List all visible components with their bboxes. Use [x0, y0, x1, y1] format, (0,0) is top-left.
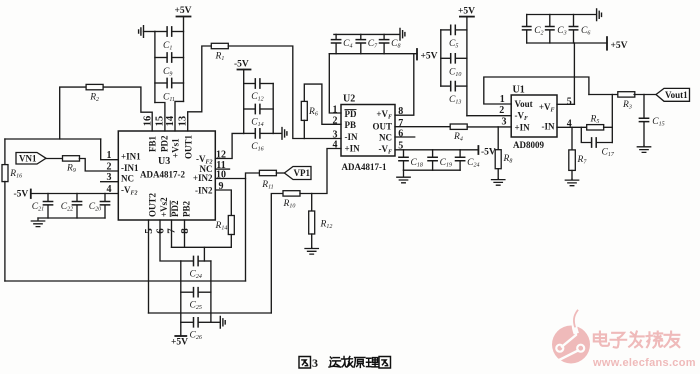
svg-text:-IN2: -IN2 — [195, 185, 213, 195]
wire C11 wire — [155, 82, 167, 84]
resistor R14 — [228, 216, 234, 235]
wire C8 bottom lead — [383, 44, 385, 54]
svg-text:R9: R9 — [66, 164, 76, 175]
power +5V C4 row — [416, 49, 418, 60]
wire C13 wire left — [441, 85, 451, 87]
svg-text:Vout: Vout — [515, 99, 533, 109]
wire C12 stack left bus — [243, 70, 245, 134]
resistor R7 — [569, 150, 576, 171]
svg-text:C6: C6 — [581, 26, 590, 37]
svg-text:VP1: VP1 — [294, 168, 311, 178]
wire C5 wire left — [441, 29, 451, 31]
wire C21 bottom lead — [47, 205, 49, 218]
svg-text:C22: C22 — [61, 202, 73, 213]
svg-text:C11: C11 — [163, 93, 175, 104]
wire C16 wire right — [261, 132, 274, 134]
wire C19 bottom lead — [432, 161, 434, 170]
wire C26 wire left — [181, 321, 194, 323]
svg-text:2: 2 — [499, 105, 504, 116]
capacitor C2 — [523, 27, 531, 30]
svg-text:C15: C15 — [652, 117, 664, 128]
wire bottom loop horizontal — [5, 280, 246, 282]
wire bus elbow to U3 pin15 — [155, 103, 165, 132]
svg-text:Vout1: Vout1 — [665, 90, 688, 100]
capacitor C24 — [456, 157, 465, 160]
capacitor C24 — [194, 256, 199, 265]
svg-text:C9: C9 — [163, 67, 172, 78]
watermark logo — [552, 326, 590, 364]
capacitor C1 — [167, 27, 172, 36]
capacitor C21 — [43, 202, 52, 205]
svg-text:C18: C18 — [411, 158, 423, 169]
svg-text:C16: C16 — [251, 142, 263, 153]
svg-text:-5V: -5V — [481, 147, 496, 157]
power +5V C2 row — [606, 37, 608, 50]
wire C9 wire right — [172, 57, 183, 59]
svg-text:+5V: +5V — [175, 6, 192, 16]
wire C16 wire to ground — [273, 132, 282, 134]
wire C24 stack right rail — [210, 261, 212, 322]
wire C7 bottom lead — [360, 44, 362, 54]
wire R12 top lead — [311, 194, 313, 212]
svg-text:5: 5 — [567, 96, 572, 107]
wire C21 top lead — [47, 194, 49, 202]
wire R2 left leg — [60, 87, 86, 139]
ground C26 ground — [220, 317, 225, 329]
wire left loop vertical upper — [4, 139, 6, 165]
wire U3 pin9 to R14 — [215, 190, 231, 216]
node Vout1 output tag — [656, 88, 690, 101]
op-amp U2 ADA4817-1 — [341, 105, 395, 157]
capacitor C13 — [451, 82, 456, 91]
svg-text:www.elecfans.com: www.elecfans.com — [592, 357, 696, 369]
svg-text:ADA4817-2: ADA4817-2 — [140, 170, 185, 180]
wire C6 line down to U1 pin5 — [573, 43, 575, 104]
capacitor C26 — [194, 318, 199, 327]
wire U3 pin1 +IN1 to feedback node — [101, 139, 119, 160]
svg-text:C26: C26 — [190, 331, 202, 342]
wire C24 bottom lead — [459, 161, 461, 170]
svg-text:+5V: +5V — [458, 6, 475, 16]
svg-text:OUT: OUT — [372, 122, 392, 132]
svg-text:PD: PD — [345, 109, 357, 119]
svg-text:R8: R8 — [503, 154, 513, 165]
wire C4 bottom lead — [335, 44, 337, 54]
svg-text:3: 3 — [502, 116, 507, 127]
wire C14 wire right — [261, 108, 274, 110]
wire U3 pin7 PD2 stub — [171, 220, 173, 247]
power +5V C5 stack — [460, 16, 474, 18]
svg-text:PD2: PD2 — [170, 200, 180, 217]
svg-text:U1: U1 — [513, 85, 525, 96]
wire R3 to Vout1 — [634, 94, 656, 96]
wire U3 pin8 PB2 stub — [184, 220, 186, 247]
wire VN1 to R9 — [46, 158, 63, 160]
svg-text:R3: R3 — [622, 100, 632, 111]
svg-text:+VF: +VF — [376, 109, 392, 121]
resistor R3 — [618, 92, 635, 97]
svg-text:4: 4 — [333, 140, 338, 151]
wire C4 row bottom rail — [329, 53, 417, 55]
capacitor C22 — [72, 202, 81, 205]
svg-text:R5: R5 — [590, 114, 600, 125]
svg-text:R2: R2 — [89, 93, 99, 104]
wire C4 row top rail — [334, 33, 400, 35]
wire R9 to U3 pin2 -IN1 — [79, 159, 118, 172]
svg-text:-VF: -VF — [378, 144, 392, 156]
capacitor C8 — [380, 40, 389, 43]
svg-text:FB1: FB1 — [147, 135, 157, 152]
wire U1 pin4 stub — [557, 126, 587, 128]
svg-text:PB: PB — [345, 120, 357, 130]
ground R8 ground — [492, 179, 505, 185]
resistor R1 — [211, 43, 228, 48]
svg-text:+VF: +VF — [539, 102, 555, 114]
wire R14 bottom to pins 7-8 rail — [172, 235, 232, 248]
wire C12 stack right bus — [272, 84, 274, 134]
ground C15 ground — [637, 146, 650, 152]
wire C1 wire — [155, 31, 167, 33]
capacitor C15 — [639, 118, 648, 121]
ground R12 ground — [305, 248, 318, 255]
node VN1 input tag — [16, 153, 46, 165]
svg-text:15: 15 — [155, 116, 166, 127]
svg-text:AD8009: AD8009 — [513, 140, 544, 150]
svg-text:C21: C21 — [32, 202, 44, 213]
wire C18 row bottom rail — [404, 169, 461, 171]
svg-text:C5: C5 — [449, 39, 458, 50]
capacitor C3 — [546, 27, 554, 30]
wire C26 to ground — [211, 321, 220, 323]
svg-text:U3: U3 — [158, 156, 170, 167]
wire C5 wire right — [456, 29, 467, 31]
watermark text 电子发烧友 — [594, 332, 609, 346]
wire R8 top lead — [497, 127, 499, 150]
wire loop to U3 pin10 +IN2 — [215, 179, 245, 282]
wire C10 wire left — [441, 57, 451, 59]
wire C13 wire right — [456, 85, 467, 87]
svg-text:+5V: +5V — [421, 52, 438, 62]
svg-text:OUT1: OUT1 — [183, 134, 193, 159]
ground C18 row ground — [397, 170, 410, 183]
wire R1 to U2 pin3 — [228, 46, 341, 139]
wire C2 bottom lead — [526, 30, 528, 43]
wire +5V down to U2 pin8 — [395, 54, 414, 115]
wire U3 pin13 OUT1 up — [188, 46, 212, 131]
title caption — [299, 357, 311, 369]
wire C17 right leg — [597, 142, 612, 144]
wire R4 to U1 pin3 — [467, 126, 511, 128]
wire U3 pin6 +Vs2 down — [160, 220, 181, 261]
svg-text:C19: C19 — [440, 158, 452, 169]
wire R7 top lead — [571, 127, 573, 150]
node VP1 input tag — [284, 167, 311, 180]
svg-text:C2: C2 — [534, 26, 543, 37]
svg-text:+IN: +IN — [345, 144, 361, 154]
resistor R10 — [283, 191, 300, 196]
wire C24 top lead — [459, 150, 461, 157]
svg-text:NC: NC — [121, 174, 134, 184]
svg-text:C24: C24 — [190, 269, 202, 280]
wire R6 bottom to -IN line — [303, 120, 305, 138]
wire U3 pin5 OUT2 down — [148, 220, 150, 313]
wire R12 bottom lead — [311, 234, 313, 248]
wire U1 pin1 Vout loop — [484, 77, 589, 104]
ground R7 ground — [565, 179, 578, 185]
capacitor C9 — [167, 53, 172, 62]
svg-text:C13: C13 — [449, 95, 461, 106]
wire U2 pin1 PD up — [329, 54, 341, 113]
wire C5 stack stem — [466, 17, 468, 116]
wire U1 pin5 stub — [557, 103, 574, 105]
wire R3 line — [589, 94, 619, 96]
svg-text:R4: R4 — [453, 132, 463, 143]
svg-text:+5V: +5V — [171, 338, 188, 348]
svg-text:+Vs2: +Vs2 — [159, 197, 169, 217]
wire C7 top lead — [360, 34, 362, 39]
wire C11 wire right — [172, 82, 183, 84]
svg-text:C8: C8 — [391, 39, 400, 50]
wire C2 row bottom rail — [527, 42, 607, 44]
resistor R5 — [587, 125, 604, 130]
op-amp U3 ADA4817-2 — [118, 131, 215, 220]
svg-text:-IN: -IN — [542, 121, 555, 131]
svg-text:-5V: -5V — [234, 60, 249, 70]
power -5V left — [30, 190, 32, 199]
wire OUT2 feedback bottom — [149, 312, 272, 314]
ground C1 wire ground — [139, 26, 144, 38]
wire C3 top lead — [549, 15, 551, 27]
capacitor C7 — [356, 40, 365, 43]
wire C19 top lead — [432, 150, 434, 157]
wire +5V stem — [183, 17, 185, 102]
wire C2 top lead — [526, 15, 528, 27]
svg-text:PD2: PD2 — [159, 135, 169, 152]
wire U2 pin6 NC stub — [395, 136, 415, 138]
svg-text:C25: C25 — [190, 301, 202, 312]
wire U3 pin3 NC stub — [101, 181, 119, 183]
wire R8 bottom lead — [497, 169, 499, 179]
svg-text:PB2: PB2 — [181, 200, 191, 217]
capacitor C5 — [451, 25, 456, 34]
svg-text:R6: R6 — [308, 107, 318, 118]
wire C20 bottom lead — [104, 205, 106, 218]
svg-text:-IN1: -IN1 — [121, 163, 139, 173]
wire U2 pin2 PB to R6 — [304, 84, 341, 124]
wire C22 top lead — [76, 194, 78, 202]
op-amp U1 AD8009 — [511, 95, 557, 137]
power +5V top-left — [177, 16, 191, 18]
power -5V U2 row — [477, 146, 479, 154]
wire C26 wire right — [199, 321, 211, 323]
ground left rail ground — [31, 218, 44, 227]
wire C5 stack left bus — [440, 30, 442, 86]
resistor R4 — [450, 124, 467, 129]
svg-text:C4: C4 — [343, 39, 352, 50]
wire C25 wire left — [181, 291, 194, 293]
resistor R9 — [63, 156, 80, 161]
capacitor C20 — [100, 202, 109, 205]
svg-text:C14: C14 — [251, 118, 263, 129]
wire C4 top lead — [335, 34, 337, 39]
capacitor C4 — [332, 40, 341, 43]
resistor R6 — [301, 101, 307, 120]
wire U3 pin12 to C16 bus — [215, 133, 243, 158]
resistor R12 — [309, 211, 315, 234]
svg-text:R14: R14 — [215, 221, 228, 232]
wire C24 wire right — [199, 260, 211, 262]
wire C16 wire left — [244, 132, 255, 134]
wire +5V elbow to U3 pin14 — [175, 101, 184, 131]
svg-text:-VF2: -VF2 — [121, 185, 138, 197]
capacitor C17 — [592, 138, 597, 147]
wire U2 pin7 OUT to R4 — [395, 126, 450, 128]
wire feedback vertical to R3 line — [611, 95, 613, 143]
wire C15 bottom lead — [643, 122, 645, 146]
wire R7 bottom lead — [571, 171, 573, 180]
svg-text:-IN: -IN — [345, 132, 358, 142]
svg-text:ADA4817-1: ADA4817-1 — [342, 162, 387, 172]
resistor R2 — [86, 84, 103, 89]
svg-text:C3: C3 — [557, 26, 566, 37]
svg-text:C20: C20 — [89, 202, 101, 213]
power +5V bottom — [175, 335, 186, 337]
svg-text:C10: C10 — [449, 67, 461, 78]
svg-text:R10: R10 — [283, 199, 296, 210]
wire C12 wire right — [261, 83, 274, 85]
wire C1 stack left bus — [154, 32, 156, 103]
svg-text:R12: R12 — [320, 220, 333, 231]
svg-text:R11: R11 — [261, 180, 273, 191]
svg-text:+5V: +5V — [611, 41, 628, 51]
capacitor C25 — [194, 288, 199, 297]
svg-text:C24: C24 — [467, 158, 479, 169]
wire R5 to feedback node — [604, 126, 613, 128]
wire -5V rail to U3 pin4 — [31, 193, 119, 195]
capacitor C14 — [255, 104, 260, 113]
ground C16 ground — [282, 128, 287, 140]
wire U3 pin11 NC stub — [215, 168, 229, 170]
svg-text:C1: C1 — [163, 41, 172, 52]
resistor R16 — [2, 165, 8, 182]
svg-text:U2: U2 — [343, 94, 355, 105]
wire C6 bottom lead — [573, 30, 575, 43]
svg-text:-5V: -5V — [14, 189, 29, 199]
wire C3 bottom lead — [549, 30, 551, 43]
wire C1 wire ground lead — [144, 31, 155, 33]
svg-text:R16: R16 — [9, 169, 22, 180]
wire C8 top lead — [383, 34, 385, 39]
ground C2 rail ground — [597, 9, 602, 21]
svg-text:C7: C7 — [368, 39, 378, 50]
capacitor C10 — [451, 54, 456, 63]
svg-text:C12: C12 — [251, 92, 263, 103]
capacitor C18 — [399, 157, 408, 160]
resistor R11 — [259, 170, 276, 175]
wire C20 top lead — [104, 194, 106, 202]
wire C12 wire left — [244, 83, 255, 85]
svg-text:R1: R1 — [215, 52, 225, 63]
wire C10 wire right — [456, 57, 467, 59]
wire C18 top lead — [403, 150, 405, 157]
wire R10 to U2 pin4 — [300, 149, 341, 194]
svg-text:3: 3 — [312, 356, 318, 370]
wire stem to U1 pin2 — [467, 115, 511, 117]
wire C17 left leg — [581, 127, 591, 142]
wire C25 wire right — [199, 291, 211, 293]
wire U2 pin5 rail — [395, 149, 478, 151]
wire C24 stack left rail — [180, 261, 182, 336]
svg-text:C17: C17 — [602, 147, 615, 158]
wire C22 bottom lead — [76, 205, 78, 218]
wire C9 wire — [155, 57, 167, 59]
wire R2 right to U3 pin16 FB1 — [103, 87, 152, 131]
wire OUT2 feedback up to R10 line — [271, 194, 283, 314]
svg-text:R7: R7 — [577, 155, 588, 166]
resistor R8 — [495, 150, 501, 169]
wire left loop vertical lower — [4, 182, 6, 282]
wire C18 bottom lead — [403, 161, 405, 170]
wire C1 wire right — [172, 31, 183, 33]
wire C14 wire left — [244, 108, 255, 110]
ground C4 rail ground — [400, 28, 405, 40]
wire C21 row bottom rail — [38, 217, 105, 219]
capacitor C11 — [167, 78, 172, 87]
wire C24 wire left — [181, 260, 194, 262]
wire C15 top lead — [643, 95, 645, 118]
wire C2 row top rail — [527, 14, 597, 16]
capacitor C6 — [569, 27, 577, 30]
svg-text:OUT2: OUT2 — [147, 192, 157, 217]
wire R11 to VP1 — [276, 172, 284, 174]
wire C6 top lead — [573, 15, 575, 27]
wire pin10 up to R11 — [246, 173, 260, 179]
power -5V mid — [238, 69, 251, 71]
capacitor C16 — [255, 129, 260, 138]
svg-text:VN1: VN1 — [19, 153, 37, 163]
wire rail drop to C24 wire — [203, 247, 205, 261]
svg-text:-VF: -VF — [515, 111, 529, 123]
svg-text:+IN: +IN — [515, 123, 531, 133]
capacitor C19 — [428, 157, 437, 160]
svg-text:+IN1: +IN1 — [121, 152, 141, 162]
wire feedback top rail — [5, 138, 101, 140]
capacitor C12 — [255, 79, 260, 88]
svg-text:+Vs1: +Vs1 — [170, 138, 180, 158]
svg-text:NC: NC — [379, 133, 392, 143]
svg-text:+IN2: +IN2 — [193, 173, 213, 183]
